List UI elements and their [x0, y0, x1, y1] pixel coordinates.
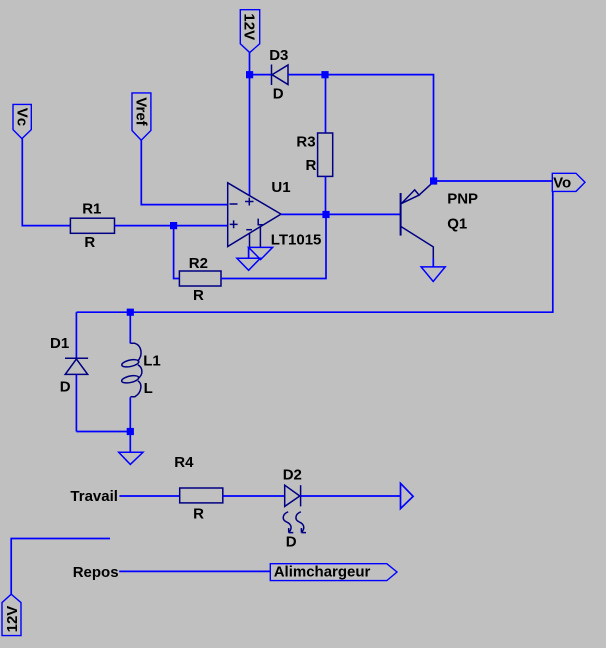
transistor Q1	[401, 182, 434, 258]
svg-text:LT1015: LT1015	[271, 231, 322, 248]
wire Repos to Alimchargeur	[119, 570, 270, 572]
junction bottom row / ground	[127, 428, 134, 435]
junction R1 / R2	[170, 222, 177, 229]
svg-text:Alimchargeur: Alimchargeur	[274, 563, 371, 580]
wire Vref to op-amp -input	[141, 140, 227, 204]
diode D3	[272, 65, 289, 86]
svg-text:R: R	[84, 234, 95, 251]
svg-text:12V: 12V	[4, 606, 21, 633]
flag Alimchargeur	[270, 563, 397, 580]
svg-text:L1: L1	[143, 352, 161, 369]
svg-text:R2: R2	[189, 255, 208, 272]
svg-text:Vo: Vo	[553, 174, 571, 191]
flag Vo	[552, 173, 585, 191]
wire emitter junction to Vo flag	[434, 180, 553, 182]
port arrow output	[401, 483, 414, 508]
wire R3 bottom lead	[325, 176, 327, 214]
wire 12V rail to op-amp V+	[249, 53, 251, 197]
junction 12V rail / D3	[246, 71, 253, 78]
wire bottom row D1-L1	[76, 431, 130, 433]
wire ground lead	[129, 432, 131, 453]
wire R2 right leg to output	[221, 214, 326, 278]
svg-text:Q1: Q1	[447, 215, 467, 232]
flag 12V bottom	[2, 594, 21, 635]
wire L1 top lead	[129, 312, 131, 343]
flag 12V top	[240, 10, 259, 53]
wire R3 top lead	[325, 75, 327, 134]
wire R2 left leg	[174, 226, 180, 279]
svg-text:L: L	[144, 380, 153, 397]
svg-text:D: D	[273, 86, 284, 103]
ground D1-L1	[119, 452, 143, 464]
svg-text:R: R	[193, 287, 204, 304]
flag Vc	[13, 104, 31, 138]
junction output / R3 / R2	[322, 211, 329, 218]
resistor R3	[318, 133, 333, 176]
wire L1 bottom lead	[129, 397, 131, 431]
junction main row / L1	[127, 309, 134, 316]
wire Travail to R4	[119, 495, 179, 497]
wire Q1 collector to ground	[432, 258, 434, 267]
flag Vref	[132, 93, 151, 140]
svg-text:D3: D3	[269, 47, 288, 64]
wire D1 bottom lead	[75, 375, 77, 432]
svg-text:12V: 12V	[241, 13, 258, 40]
wire op-amp output to Q1 base	[281, 213, 401, 215]
inductor L1	[121, 343, 142, 396]
svg-text:U1: U1	[271, 179, 290, 196]
ground Q1 collector	[421, 267, 445, 282]
resistor R4	[180, 488, 223, 503]
svg-text:R4: R4	[174, 454, 194, 471]
svg-text:Vc: Vc	[14, 108, 31, 126]
wire Vo down to main row	[552, 191, 554, 312]
junction D3 / R3 top	[321, 71, 328, 78]
svg-text:Vref: Vref	[132, 97, 149, 126]
svg-text:Repos: Repos	[73, 564, 119, 581]
wire R4 to D2	[223, 495, 285, 497]
svg-text:Travail: Travail	[70, 488, 118, 505]
wire main horizontal row	[76, 311, 553, 313]
wire D2 to output arrow	[301, 495, 400, 497]
diode D2 (LED)	[283, 485, 306, 532]
wire Vc to R1	[22, 139, 70, 226]
ground op-amp pin	[249, 247, 273, 259]
svg-text:D: D	[60, 378, 71, 395]
junction emitter / Vo	[430, 177, 437, 184]
svg-text:R: R	[193, 505, 204, 522]
diode D1	[65, 358, 88, 374]
wire 12V bottom branch	[11, 539, 110, 595]
wire D1 top lead	[75, 312, 77, 358]
svg-text:R1: R1	[82, 201, 101, 218]
svg-text:D: D	[286, 534, 297, 551]
svg-text:PNP: PNP	[447, 190, 478, 207]
resistor R2	[179, 271, 221, 286]
svg-text:D1: D1	[50, 335, 69, 352]
resistor R1	[70, 218, 114, 233]
op-amp U1	[228, 183, 281, 248]
svg-text:R3: R3	[296, 133, 315, 150]
svg-text:D2: D2	[283, 466, 302, 483]
wire D3 to emitter rail	[288, 75, 434, 181]
svg-text:R: R	[306, 157, 317, 174]
ground op-amp V-	[237, 258, 260, 270]
wire D3 anode-side stub	[250, 74, 272, 76]
wire R1 to op-amp +input	[115, 225, 228, 227]
wire op-amp V- to ground	[248, 247, 250, 258]
